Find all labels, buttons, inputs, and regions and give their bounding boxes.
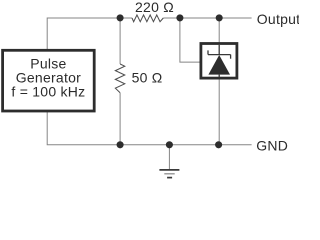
svg-text:Output: Output	[257, 11, 299, 27]
svg-text:220 Ω: 220 Ω	[135, 0, 174, 15]
svg-text:50 Ω: 50 Ω	[132, 69, 163, 85]
svg-text:GND: GND	[256, 137, 288, 153]
svg-text:f = 100 kHz: f = 100 kHz	[11, 84, 85, 100]
